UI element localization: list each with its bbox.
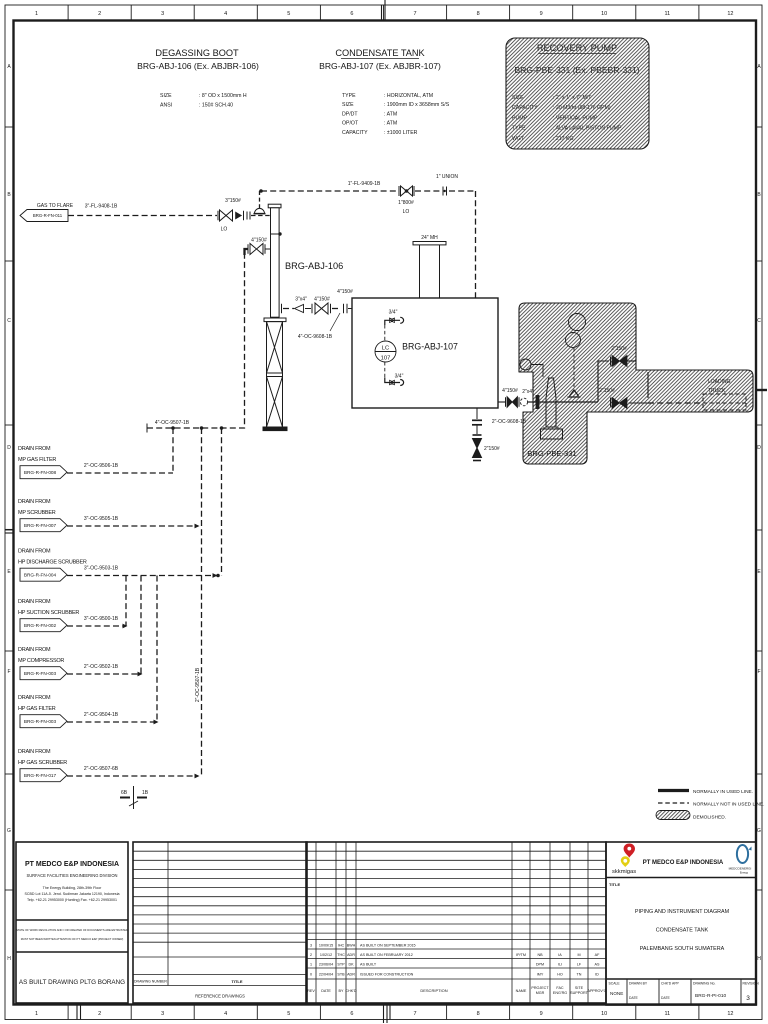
svg-text:DRAIN FROM: DRAIN FROM: [18, 548, 51, 554]
valve 4"150# tank outlet with 2"x4" reducer: [492, 388, 534, 425]
logo skkmigas: [612, 844, 636, 876]
svg-text:REVISION: REVISION: [743, 982, 760, 986]
pipe 3"-OC-9500-1B (dashed): [67, 616, 128, 628]
svg-text:HP SUCTION SCRUBBER: HP SUCTION SCRUBBER: [18, 610, 79, 616]
svg-text:DK: DK: [348, 963, 354, 967]
left row ticks: [5, 127, 762, 890]
svg-text:IP/TM: IP/TM: [516, 953, 526, 957]
svg-text:MP SCRUBBER: MP SCRUBBER: [18, 510, 56, 516]
svg-text:HO: HO: [557, 973, 563, 977]
off-page connector gas to flare BRG-R-FN-011: [20, 203, 74, 222]
off-page connector drain from mp compressor BRG-R-FN-003: [18, 647, 67, 680]
title block company box: [16, 842, 128, 1003]
svg-text:AS BUILT ON SEPTEMBER 2015: AS BUILT ON SEPTEMBER 2015: [360, 944, 416, 948]
ruler numbers top: [35, 11, 733, 17]
svg-text:REFERENCE DRAWINGS: REFERENCE DRAWINGS: [195, 994, 245, 999]
svg-text:6: 6: [350, 11, 353, 17]
recovery pump demolished info box: [514, 43, 639, 75]
svg-text:2"150#: 2"150#: [484, 446, 500, 452]
svg-text:BY: BY: [339, 989, 344, 993]
nozzle 3/4" top: [385, 310, 404, 326]
svg-text:: ±1000 LITER: : ±1000 LITER: [384, 130, 418, 136]
svg-text:TRUCK: TRUCK: [708, 388, 726, 394]
svg-text:IMY: IMY: [537, 973, 544, 977]
svg-text:DATE: DATE: [321, 989, 331, 993]
wire riser 9503 to header: [216, 428, 221, 577]
svg-text:6: 6: [350, 1011, 353, 1017]
svg-text:CONDENSATE TANK: CONDENSATE TANK: [656, 928, 709, 934]
ruler numbers bottom: [35, 1011, 733, 1017]
svg-text:BRG-PBE-331: BRG-PBE-331: [527, 449, 576, 458]
svg-text:PT MEDCO E&P INDONESIA: PT MEDCO E&P INDONESIA: [25, 861, 119, 868]
svg-text:SCBD Lot 11A Jl. Jend. Sudirma: SCBD Lot 11A Jl. Jend. Sudirman Jakarta …: [24, 892, 119, 896]
svg-text:STB: STB: [337, 973, 345, 977]
svg-text:3: 3: [161, 11, 164, 17]
svg-text:HP GAS FILTER: HP GAS FILTER: [18, 706, 56, 712]
svg-text:1/02/12: 1/02/12: [320, 953, 332, 957]
svg-text:PIPING AND INSTRUMENT DIAGR: PIPING AND INSTRUMENT DIAGRAM: [635, 909, 730, 915]
svg-text:ISSUED FOR CONSTRUCTION: ISSUED FOR CONSTRUCTION: [360, 973, 414, 977]
svg-text:DRAIN FROM: DRAIN FROM: [18, 446, 51, 452]
svg-text:11: 11: [664, 1011, 670, 1017]
svg-text:GAS TO FLARE: GAS TO FLARE: [37, 203, 74, 209]
svg-text:BRG-R-FN-008: BRG-R-FN-008: [24, 470, 57, 475]
svg-text:NB: NB: [537, 953, 543, 957]
svg-text:7: 7: [413, 1011, 416, 1017]
svg-text:3: 3: [161, 1011, 164, 1017]
svg-text:NAME: NAME: [516, 989, 527, 993]
svg-text:MEDCOENERGI: MEDCOENERGI: [729, 867, 752, 871]
vent dome / flame arrestor on boot inlet: [254, 208, 266, 213]
svg-text:SITE: SITE: [575, 986, 584, 990]
svg-text:BRG-R-FN-003: BRG-R-FN-003: [24, 719, 57, 724]
wire riser 9506 to header: [172, 428, 174, 473]
svg-text:NORMALLY IN USED LINE.: NORMALLY IN USED LINE.: [693, 789, 753, 795]
boot support tower: [263, 318, 287, 431]
svg-text:5: 5: [287, 1011, 290, 1017]
node junction dots on header: [171, 426, 223, 430]
svg-text:23/06/04: 23/06/04: [319, 963, 333, 967]
svg-text:DP/DT: DP/DT: [342, 111, 358, 117]
svg-text:DRAIN FROM: DRAIN FROM: [18, 695, 51, 701]
svg-text:6B: 6B: [121, 790, 128, 796]
svg-text:4"150#: 4"150#: [337, 289, 353, 295]
svg-text:DRAIN FROM: DRAIN FROM: [18, 599, 51, 605]
svg-text:TITLE: TITLE: [231, 979, 242, 984]
svg-text:D: D: [7, 445, 11, 451]
svg-text:AS BUILT: AS BUILT: [360, 963, 377, 967]
wire riser 9502 up to 9503: [140, 576, 142, 675]
svg-text:CONDENSATE TANK: CONDENSATE TANK: [335, 48, 425, 58]
svg-text:ENG'RG: ENG'RG: [553, 991, 567, 995]
svg-text:G: G: [7, 828, 11, 834]
svg-text:SURFACE FACILITIES ENGINEERING: SURFACE FACILITIES ENGINEERING DIVISION: [27, 873, 118, 878]
logo medcoenergi: [729, 845, 752, 875]
svg-text:3"-OC-9500-1B: 3"-OC-9500-1B: [84, 616, 119, 622]
svg-text:F: F: [7, 669, 10, 675]
svg-text:8: 8: [477, 11, 480, 17]
top ruler ticks: [68, 5, 699, 21]
svg-text:22/04/04: 22/04/04: [319, 973, 333, 977]
svg-text:MP GAS FILTER: MP GAS FILTER: [18, 457, 56, 463]
revision table: [306, 842, 606, 1003]
svg-text:12: 12: [727, 1011, 733, 1017]
svg-text:3: 3: [746, 995, 750, 1002]
off-page connector drain from mp gas filter BRG-R-FN-008: [18, 446, 67, 479]
svg-text:4"150#: 4"150#: [251, 238, 267, 244]
svg-text:ADR: ADR: [347, 953, 355, 957]
off-page connector drain from hp suction scrubber BRG-R-FN-002: [18, 599, 79, 632]
svg-text:TYPE: TYPE: [342, 93, 356, 99]
svg-text:7: 7: [413, 11, 416, 17]
off-page connector drain from hp gas scrubber BRG-R-FN-017: [18, 749, 67, 782]
wire riser 9507 long (2"-OC-9507-1B): [195, 428, 202, 776]
svg-text:5: 5: [287, 11, 290, 17]
svg-text:10: 10: [601, 1011, 607, 1017]
svg-text:HP DISCHARGE SCRUBBER: HP DISCHARGE SCRUBBER: [18, 560, 87, 566]
svg-text:E: E: [757, 569, 761, 575]
svg-text:C: C: [7, 318, 11, 324]
instrument LC 107: [375, 325, 396, 378]
wire riser 9500 up to 9503: [125, 576, 127, 627]
off-page loading truck: [703, 379, 746, 410]
svg-text:12: 12: [727, 11, 733, 17]
svg-text:LOADING: LOADING: [708, 379, 731, 385]
svg-text:BRG-R-FN-003: BRG-R-FN-003: [24, 671, 57, 676]
valve 4"150# boot drain inlet: [248, 238, 271, 255]
svg-text:BRG-R-FN-002: BRG-R-FN-002: [24, 623, 57, 628]
svg-text:skkmigas: skkmigas: [612, 869, 636, 875]
pipe 4"-OC-9608-1B boot to tank: [282, 289, 354, 340]
svg-text:1: 1: [310, 963, 312, 967]
wire vent riser: [259, 191, 261, 208]
svg-text:F: F: [757, 669, 760, 675]
svg-text:3: 3: [310, 944, 312, 948]
svg-text:1"800#: 1"800#: [398, 200, 414, 206]
reference drawings table: [133, 842, 307, 1003]
pipe 3"-FL-9408-1B (dashed): [68, 204, 217, 216]
pipe 2"-OC-9504-1B (dashed): [67, 712, 159, 724]
svg-text:0: 0: [310, 973, 312, 977]
valve 1"800# LO globe: [398, 186, 414, 215]
svg-text:DPM: DPM: [536, 963, 544, 967]
svg-text:TN: TN: [577, 973, 582, 977]
svg-text:MGR: MGR: [536, 991, 545, 995]
instrument PI bubble: [566, 314, 586, 398]
svg-text:2"-OC-9504-1B: 2"-OC-9504-1B: [84, 712, 119, 718]
svg-text:2: 2: [98, 11, 101, 17]
pipe 3"-OC-9503-1B (dashed): [67, 566, 218, 578]
svg-text:10/09/15: 10/09/15: [319, 944, 333, 948]
svg-text:3/4": 3/4": [395, 374, 404, 380]
equipment condensate tank BRG-ABJ-107: [352, 298, 498, 408]
svg-text:Energy: Energy: [740, 871, 749, 875]
svg-text:HP GAS SCRUBBER: HP GAS SCRUBBER: [18, 760, 67, 766]
svg-text:24" MH: 24" MH: [421, 235, 438, 241]
svg-text:STATE OF WORK REVOLUTION AND /: STATE OF WORK REVOLUTION AND / OR CREATE…: [16, 928, 128, 932]
pump BRG-PBE-331: [541, 378, 563, 439]
bottom ruler ticks: [68, 1005, 699, 1020]
svg-text:THC: THC: [337, 953, 345, 957]
off-page connector drain from hp discharge scrubber BRG-R-FN-004: [18, 548, 87, 581]
svg-text:2: 2: [98, 1011, 101, 1017]
svg-text:A: A: [7, 64, 11, 70]
svg-text:LO: LO: [221, 227, 228, 233]
svg-text:AS: AS: [595, 963, 600, 967]
legend normally in used line: [658, 789, 753, 795]
svg-text:9: 9: [540, 11, 543, 17]
svg-text:D: D: [757, 445, 761, 451]
svg-text:11: 11: [664, 11, 670, 17]
svg-text:DRAIN FROM: DRAIN FROM: [18, 499, 51, 505]
spec break 6B / 1B: [120, 786, 149, 809]
svg-text:: 150# SCH.40: : 150# SCH.40: [199, 103, 233, 109]
svg-text:1: 1: [35, 11, 38, 17]
degassing boot specs: [160, 93, 247, 109]
svg-text:BRG-R-FN-017: BRG-R-FN-017: [24, 773, 57, 778]
svg-text:: 8" OD x 1500mm H: : 8" OD x 1500mm H: [199, 93, 247, 99]
svg-text:B: B: [7, 192, 11, 198]
svg-text:BRG-ABJ-107 (Ex. ABJBR-107): BRG-ABJ-107 (Ex. ABJBR-107): [319, 61, 441, 71]
svg-text:REV: REV: [307, 989, 315, 993]
svg-text:8: 8: [477, 1011, 480, 1017]
svg-text:LF: LF: [577, 963, 582, 967]
svg-text:PALEMBANG SOUTH SUMATERA: PALEMBANG SOUTH SUMATERA: [640, 946, 725, 952]
drain valve 2"150# under tank: [472, 408, 500, 461]
svg-text:E: E: [7, 569, 11, 575]
svg-text:4"150#: 4"150#: [314, 297, 330, 303]
svg-text:OP/OT: OP/OT: [342, 121, 359, 127]
equipment degassing boot BRG-ABJ-106: [268, 204, 281, 317]
svg-text:H: H: [7, 956, 11, 962]
title box: [606, 842, 756, 1005]
svg-text:PROJECT: PROJECT: [531, 986, 549, 990]
node junction at vent top: [259, 189, 263, 193]
off-page connector drain from mp scrubber BRG-R-FN-007: [18, 499, 67, 532]
instrument bubble small: [520, 359, 543, 377]
svg-text:: HORIZONTAL, ATM: : HORIZONTAL, ATM: [384, 93, 433, 99]
svg-text:BRG-R-FN-011: BRG-R-FN-011: [33, 213, 63, 218]
pipe 3"-OC-9505-1B (dashed): [67, 516, 200, 528]
svg-text:DATE: DATE: [661, 996, 671, 1000]
svg-text:BRG-ABJ-107: BRG-ABJ-107: [402, 342, 458, 352]
svg-text:10: 10: [601, 11, 607, 17]
svg-text:DRAWING No.: DRAWING No.: [693, 982, 716, 986]
svg-text:BRG-R-FN-007: BRG-R-FN-007: [24, 523, 57, 528]
svg-text:SUPPORT: SUPPORT: [570, 991, 589, 995]
svg-text:4"-OC-9507-1B: 4"-OC-9507-1B: [155, 420, 190, 426]
svg-text:4"-OC-9608-1B: 4"-OC-9608-1B: [298, 334, 333, 340]
svg-text:C: C: [757, 318, 761, 324]
svg-text:: ATM: : ATM: [384, 121, 397, 127]
svg-text:3/4": 3/4": [389, 310, 398, 316]
svg-text:SIZE: SIZE: [160, 93, 172, 99]
svg-text:3"-OC-9503-1B: 3"-OC-9503-1B: [84, 566, 119, 572]
svg-text:107: 107: [381, 356, 391, 362]
svg-text:ID: ID: [595, 973, 599, 977]
svg-text:CHK'D APP: CHK'D APP: [661, 982, 680, 986]
svg-text:CHK'D: CHK'D: [345, 989, 356, 993]
svg-text:FAC: FAC: [556, 986, 564, 990]
pipe pump discharge riser: [598, 361, 648, 402]
svg-text:1B: 1B: [142, 790, 149, 796]
pipe 1"-FL-9409-1B (dashed): [261, 181, 476, 191]
wire riser into tank top: [475, 191, 477, 298]
svg-text:AS BUILT ON FEBRUARY 2012: AS BUILT ON FEBRUARY 2012: [360, 953, 413, 957]
svg-text:4: 4: [224, 1011, 227, 1017]
svg-text:APPROV'G: APPROV'G: [588, 989, 607, 993]
title condensate tank: [319, 48, 441, 71]
svg-text:3"x4": 3"x4": [295, 297, 307, 303]
svg-text:IHC: IHC: [338, 944, 345, 948]
svg-text:9: 9: [540, 1011, 543, 1017]
svg-text:2"-OC-9502-1B: 2"-OC-9502-1B: [84, 664, 119, 670]
svg-text:2: 2: [310, 953, 312, 957]
svg-text:DEMOLISHED.: DEMOLISHED.: [693, 815, 726, 821]
svg-text:: 1900mm ID x 3658mm S/S: : 1900mm ID x 3658mm S/S: [384, 102, 450, 108]
svg-text:DRAIN FROM: DRAIN FROM: [18, 647, 51, 653]
demolished area outline (hatched): [519, 303, 753, 464]
manhole 24" MH: [413, 235, 446, 298]
pipe header 4"-OC-9507-1B riser to boot: [147, 249, 248, 433]
svg-text:ILI: ILI: [558, 963, 562, 967]
svg-text:TITLE: TITLE: [609, 882, 620, 887]
legend demolished: [656, 811, 726, 821]
pipe 2"-OC-9507-6B (dashed): [67, 766, 200, 778]
svg-text:STP: STP: [337, 963, 345, 967]
valve 2"150# discharge top: [611, 346, 628, 367]
svg-text:CAPACITY: CAPACITY: [342, 130, 368, 136]
svg-text:BRG-ABJ-106 (Ex. ABJBR-106): BRG-ABJ-106 (Ex. ABJBR-106): [137, 61, 259, 71]
svg-text:LC: LC: [382, 346, 389, 352]
svg-text:SCALE: SCALE: [609, 982, 621, 986]
title degassing boot: [137, 48, 259, 71]
svg-text:A: A: [757, 64, 761, 70]
svg-text:ANSI: ANSI: [160, 103, 172, 109]
svg-text:NONE: NONE: [610, 991, 623, 996]
svg-text:2"-OC-9507-1B: 2"-OC-9507-1B: [195, 667, 201, 702]
svg-text:BRG-ABJ-106: BRG-ABJ-106: [285, 261, 343, 271]
svg-text:MP COMPRESSOR: MP COMPRESSOR: [18, 658, 64, 664]
svg-text:Telp. +62-21 29953000 (Hunting: Telp. +62-21 29953000 (Hunting) Fax. +62…: [27, 898, 117, 902]
svg-text:NORMALLY NOT IN USED LINE.: NORMALLY NOT IN USED LINE.: [693, 802, 764, 808]
svg-text:1" UNION: 1" UNION: [436, 174, 458, 180]
condensate tank specs: [342, 93, 450, 136]
pipe 2"-OC-9502-1B (dashed): [67, 664, 143, 676]
pipe pump suction 2"-OC-9608-1B: [528, 395, 598, 409]
svg-text:DEGASSING BOOT: DEGASSING BOOT: [155, 48, 239, 58]
svg-text:H: H: [757, 956, 761, 962]
svg-text:G: G: [757, 828, 761, 834]
svg-text:BRG-R-FN-004: BRG-R-FN-004: [24, 573, 57, 578]
svg-text:2"150#: 2"150#: [611, 346, 627, 352]
svg-text:DRAWN BY: DRAWN BY: [629, 982, 648, 986]
title box bottom strip: [627, 979, 741, 1005]
svg-text:DESCRIPTION: DESCRIPTION: [420, 988, 447, 993]
svg-text:The Energy Building, 28th-39th: The Energy Building, 28th-39th Floor: [43, 886, 103, 890]
svg-text:3"150#: 3"150#: [225, 198, 241, 204]
svg-text:PT MEDCO E&P INDONESIA: PT MEDCO E&P INDONESIA: [643, 860, 724, 866]
svg-text:BWH: BWH: [347, 944, 356, 948]
svg-text:AS BUILT DRAWING PLTG BORANG: AS BUILT DRAWING PLTG BORANG: [19, 979, 125, 986]
union 1": [436, 174, 458, 196]
svg-text:1"-FL-9409-1B: 1"-FL-9409-1B: [348, 181, 381, 187]
svg-text:2"-OC-9506-1B: 2"-OC-9506-1B: [84, 463, 119, 469]
svg-text:DRAWING NUMBER: DRAWING NUMBER: [134, 980, 167, 984]
svg-text:2"150#: 2"150#: [599, 388, 615, 394]
svg-text:LO: LO: [403, 209, 410, 215]
svg-text:2"-OC-9608-1B: 2"-OC-9608-1B: [492, 419, 527, 425]
off-page connector drain from hp gas filter BRG-R-FN-003: [18, 695, 67, 728]
svg-text:MUST NOT BEEN WRITTEN ATTENTIO: MUST NOT BEEN WRITTEN ATTENTION OF PT. M…: [21, 937, 124, 941]
svg-text:AF: AF: [595, 953, 600, 957]
svg-text:4"150#: 4"150#: [502, 388, 518, 394]
nozzle 3/4" bottom: [385, 374, 404, 386]
svg-text:2"-OC-9507-6B: 2"-OC-9507-6B: [84, 766, 119, 772]
svg-text:4: 4: [224, 11, 227, 17]
svg-text:2"x4": 2"x4": [522, 389, 534, 395]
valve 2"150# to loading: [599, 388, 703, 409]
legend normally not in used line: [658, 802, 764, 808]
valve 3"150# LO with check valve: [218, 198, 271, 233]
svg-text:3"-OC-9505-1B: 3"-OC-9505-1B: [84, 516, 119, 522]
svg-text:1: 1: [35, 1011, 38, 1017]
svg-text:DRAIN FROM: DRAIN FROM: [18, 749, 51, 755]
svg-text:M: M: [577, 953, 580, 957]
svg-text:BRG-R-PI-010: BRG-R-PI-010: [695, 993, 727, 999]
svg-text:DATE: DATE: [629, 996, 639, 1000]
svg-text:3"-FL-9408-1B: 3"-FL-9408-1B: [85, 204, 118, 210]
svg-text:IA: IA: [558, 953, 562, 957]
svg-text:SIZE: SIZE: [342, 102, 354, 108]
wire riser 9504 up to 9503: [156, 576, 158, 723]
svg-text:B: B: [757, 192, 761, 198]
svg-text:ADR: ADR: [347, 973, 355, 977]
svg-text:: ATM: : ATM: [384, 111, 397, 117]
pipe 2"-OC-9506-1B (dashed): [67, 463, 173, 473]
